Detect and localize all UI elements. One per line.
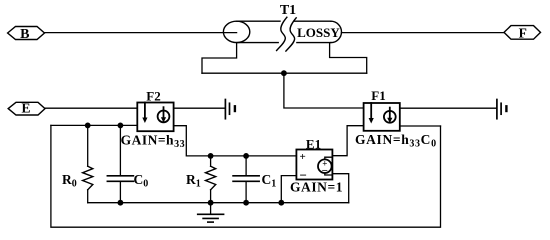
F2 output current source — [158, 111, 170, 123]
wire B to T1 — [45, 32, 237, 34]
svg-text:GAIN=h33C0: GAIN=h33C0 — [355, 132, 437, 149]
T1 secondary-bottom wires (left drop) — [202, 43, 237, 74]
resistor R0 — [83, 125, 93, 202]
capacitor C1 — [233, 156, 259, 203]
svg-text:E: E — [21, 101, 30, 116]
wire T1 to F — [342, 32, 505, 34]
connector E — [8, 101, 45, 116]
node C1 top — [243, 153, 249, 159]
F1 output current source — [384, 111, 396, 123]
svg-text:LOSSY: LOSSY — [297, 25, 340, 40]
F1 input branch arrow — [370, 103, 372, 119]
wire junction to F1 input — [284, 73, 364, 108]
VCVS E1 — [296, 150, 332, 183]
transmission line T1 (lossy) — [223, 17, 341, 51]
wire F2 output down to node rail — [174, 126, 297, 156]
node R0 top — [85, 123, 91, 129]
svg-text:+: + — [300, 151, 306, 163]
resistor R1 — [206, 156, 216, 203]
svg-text:F: F — [519, 26, 527, 41]
break squiggle left — [277, 17, 287, 50]
node C1 bottom — [243, 200, 249, 206]
node C0 top — [118, 123, 124, 129]
svg-text:F1: F1 — [371, 88, 385, 103]
wire E1 output top to F1 — [332, 126, 363, 156]
connector B — [8, 27, 45, 42]
node R1 bottom — [208, 200, 214, 206]
break squiggle right — [286, 18, 296, 51]
CCCS F1 — [364, 103, 400, 131]
wire F2 to sense source — [174, 107, 225, 109]
svg-text:GAIN=1: GAIN=1 — [290, 179, 343, 194]
F2 input branch arrow — [144, 103, 146, 119]
wire bottom bar of T1 — [202, 72, 367, 74]
wire F1 to sense source — [400, 107, 497, 109]
wire E1 output bottom to ground rail — [332, 174, 348, 203]
svg-text:F2: F2 — [146, 89, 160, 104]
svg-text:B: B — [20, 27, 29, 42]
outer loop wire (left and bottom and right) — [51, 125, 441, 227]
capacitor C0 — [107, 125, 133, 202]
node C0 bottom — [118, 200, 124, 206]
ground — [198, 203, 224, 222]
CCCS F2 — [137, 103, 173, 132]
wire rail R0/C0 top — [51, 124, 137, 126]
wire E to F2 — [45, 107, 137, 109]
battery (sense source) at F1 — [497, 100, 507, 119]
wire E1 minus input — [281, 176, 296, 203]
node E1 minus branch — [278, 200, 284, 206]
T1 secondary-bottom wires (right drop) — [330, 43, 367, 74]
node R1 top — [208, 153, 214, 159]
battery (sense source) at F2 — [225, 100, 235, 119]
connector F — [504, 26, 541, 41]
svg-text:T1: T1 — [280, 3, 296, 18]
wire F1 output right to outer loop — [400, 125, 441, 127]
node junction under T1 — [281, 70, 287, 76]
wire ground rail (bottom) — [88, 202, 349, 204]
